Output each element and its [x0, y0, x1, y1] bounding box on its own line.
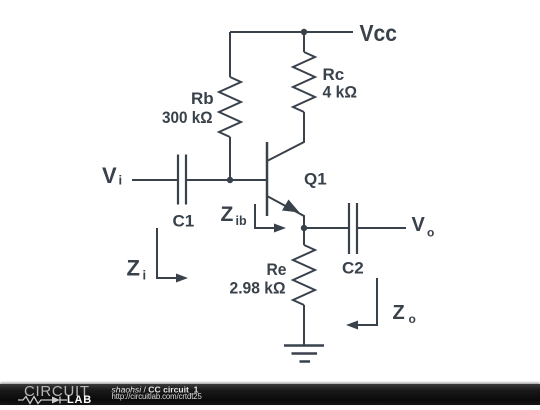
svg-text:i: i: [119, 173, 123, 188]
svg-text:2.98 kΩ: 2.98 kΩ: [230, 279, 286, 298]
resistor Rb: [219, 77, 241, 137]
transistor Q1 emitter: [267, 196, 304, 228]
wire Rc bottom lead to collector: [267, 112, 304, 161]
resistor Re label: [267, 261, 287, 279]
capacitor C1 label: [173, 212, 195, 231]
power Vcc label: [360, 20, 398, 46]
wire emitter to C2: [304, 227, 348, 229]
svg-text:Z: Z: [127, 256, 140, 281]
node base junction: [227, 177, 233, 183]
port Vo label: [412, 214, 435, 240]
svg-text:4 kΩ: 4 kΩ: [323, 83, 358, 102]
impedance arrow Zo: [346, 278, 377, 330]
wire Vi to C1: [132, 179, 177, 181]
svg-text:C2: C2: [342, 259, 364, 278]
port Vi label: [102, 163, 122, 188]
resistor Rc value 4 kΩ: [323, 83, 358, 102]
wire Vcc rail (top horizontal): [230, 31, 353, 33]
svg-text:Z: Z: [221, 203, 234, 226]
wire C1 to base: [186, 179, 266, 181]
resistor Rb value 300 kΩ: [162, 109, 213, 127]
transistor Q1 base bar: [266, 142, 269, 216]
svg-text:ib: ib: [236, 214, 247, 228]
ground: [284, 346, 324, 362]
svg-text:V: V: [412, 214, 426, 236]
svg-text:V: V: [102, 163, 117, 188]
wire C2 to Vo: [357, 227, 406, 229]
wire emitter to Re: [303, 228, 305, 245]
CircuitLab logo resistor-diode symbol: [18, 397, 67, 404]
capacitor C1: [178, 155, 186, 205]
svg-text:Rb: Rb: [191, 89, 214, 108]
node emitter junction: [301, 225, 307, 231]
svg-text:o: o: [427, 226, 434, 240]
resistor Rb label: [191, 89, 214, 108]
svg-text:LAB: LAB: [67, 394, 92, 405]
svg-text:Vcc: Vcc: [360, 20, 398, 46]
impedance arrow Zi: [157, 228, 188, 283]
footer attribution line: [112, 385, 199, 395]
wire Re bottom lead: [303, 305, 305, 345]
resistor Re: [293, 245, 315, 305]
impedance label Zo: [393, 302, 416, 326]
svg-text:http://circuitlab.com/crtdt25: http://circuitlab.com/crtdt25: [112, 392, 203, 401]
svg-text:Rc: Rc: [323, 65, 345, 84]
resistor Re value 2.98 kΩ: [230, 279, 286, 298]
svg-text:C1: C1: [173, 212, 195, 231]
svg-text:Re: Re: [267, 261, 287, 279]
resistor Rc label: [323, 65, 345, 84]
impedance label Zi: [127, 256, 147, 283]
wire Rc top lead: [303, 32, 305, 52]
capacitor C2: [349, 203, 357, 254]
wire Rb top lead: [229, 32, 231, 77]
resistor Rc: [293, 52, 315, 112]
impedance arrow Zib: [255, 204, 286, 233]
capacitor C2 label: [342, 259, 364, 278]
node Vcc junction: [301, 29, 307, 35]
svg-text:300 kΩ: 300 kΩ: [162, 109, 213, 127]
footer bar: [0, 384, 540, 405]
wire Rb bottom lead: [229, 137, 231, 180]
svg-text:Z: Z: [393, 302, 405, 324]
svg-text:Q1: Q1: [304, 170, 327, 189]
CircuitLab logo LAB text: [67, 394, 92, 406]
CircuitLab logo CIRCUIT text: [24, 383, 90, 400]
transistor Q1 label: [304, 170, 327, 189]
impedance label Zib: [221, 203, 247, 228]
svg-text:i: i: [143, 268, 147, 283]
svg-text:o: o: [409, 312, 416, 326]
footer url line: [112, 392, 203, 401]
